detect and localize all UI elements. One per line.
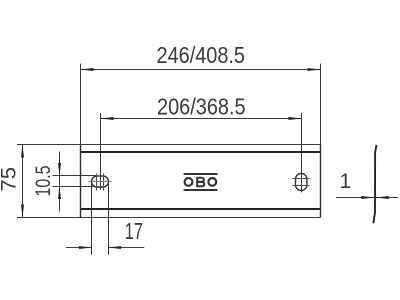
extension line left hole centre [100,113,102,190]
arrowhead 17 right pointing left [109,246,122,249]
dimension line 1 right segment [376,197,398,199]
svg-text:206/368.5: 206/368.5 [157,94,246,120]
arrowhead right of 246 dimension [308,68,321,71]
dimension line 10.5 vertical with outside arrows [59,152,61,212]
plate flange bend line bottom (thick) [81,208,320,210]
plate outline bottom thin edge [81,217,321,219]
extension line slot bottom edge [53,186,97,188]
right slot arc-centre tick bottom [293,185,310,187]
left slot hole 17 x 10.5 [92,176,109,187]
OBO logo bottom bar [183,189,217,191]
arrowhead left of 206 dimension [101,117,114,120]
dimension line 206/368.5 [101,118,302,120]
extension line bottom of plate [17,217,81,219]
OBO logo letter B [197,178,204,187]
left slot arc-centre tick left [96,174,98,191]
plate flange bend line top (thick) [81,151,320,153]
svg-text:17: 17 [125,219,143,244]
arrowhead 1 right pointing left [376,196,389,199]
dimension line 1 left segment [336,197,374,199]
extension line right hole centre [301,113,303,193]
left slot arc-centre tick right [103,174,105,191]
dimension label 75 (rotated) [0,167,20,192]
left slot horizontal centreline [89,181,112,183]
dimension line 17 left segment [66,247,92,249]
extension line slot left end [91,182,93,256]
extension line top of plate [17,144,81,146]
plate outline top thin edge [81,144,321,146]
arrowhead upper of 10.5 pointing down [58,163,61,176]
svg-text:246/408.5: 246/408.5 [156,43,245,69]
arrowhead right of 206 dimension [289,117,302,120]
OBO logo letter O left [185,178,193,186]
OBO logo top bar [183,173,217,175]
arrowhead top of 75 dimension [21,145,24,158]
arrowhead lower of 10.5 pointing up [58,187,61,200]
arrowhead left of 246 dimension [81,68,94,71]
OBO logo letter O right [208,178,216,186]
dimension label 206/368.5 [157,94,246,120]
plate left edge [80,145,82,218]
arrowhead bottom of 75 dimension [21,205,24,218]
side view plate edge profile [373,145,376,224]
dimension line 17 right segment [109,247,145,249]
dimension label 246/408.5 [156,43,245,69]
dimension label 17 [125,219,143,244]
extension line right above plate corner [320,64,322,145]
extension line left above plate corner [80,64,82,145]
extension line slot top edge [53,175,97,177]
right slot arc-centre tick top [293,178,310,180]
dimension line 246/408.5 [81,69,321,71]
svg-text:10.5: 10.5 [31,165,55,196]
extension line slot right end [108,182,110,256]
svg-text:75: 75 [0,167,20,192]
dimension label 10.5 (rotated) [31,165,55,196]
right slot hole 10.5 x 17 [296,174,307,191]
svg-text:1: 1 [339,170,351,193]
plate right edge [320,145,322,218]
arrowhead 1 left pointing right [361,196,374,199]
arrowhead 17 left pointing right [79,246,92,249]
dimension line 75 [22,145,24,218]
